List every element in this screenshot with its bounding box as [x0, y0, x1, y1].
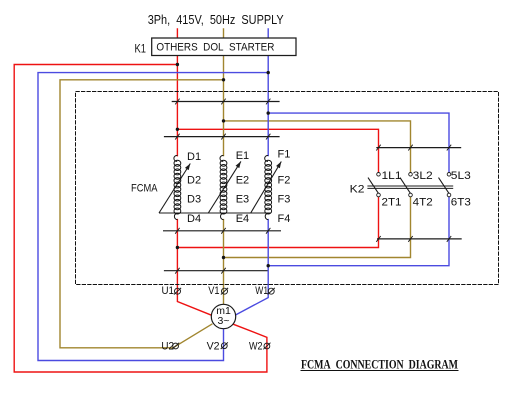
svg-text:U1: U1 — [162, 285, 175, 297]
svg-text:6T3: 6T3 — [451, 197, 471, 209]
svg-text:4T2: 4T2 — [413, 197, 433, 209]
svg-text:OTHERS DOL STARTER: OTHERS DOL STARTER — [156, 42, 274, 54]
svg-text:3L2: 3L2 — [413, 170, 433, 182]
svg-text:FCMA CONNECTION DIAGRAM: FCMA CONNECTION DIAGRAM — [301, 357, 458, 371]
svg-text:F4: F4 — [278, 213, 291, 225]
svg-text:D4: D4 — [187, 213, 201, 225]
svg-text:U2: U2 — [161, 340, 174, 352]
svg-text:E2: E2 — [236, 175, 249, 187]
svg-text:F3: F3 — [278, 194, 291, 206]
svg-text:3~: 3~ — [218, 315, 230, 327]
svg-text:D3: D3 — [187, 194, 201, 206]
svg-text:V2: V2 — [207, 340, 220, 352]
svg-text:E1: E1 — [236, 150, 249, 162]
svg-text:K2: K2 — [350, 183, 365, 195]
svg-text:V1: V1 — [208, 285, 219, 297]
svg-text:F2: F2 — [278, 175, 291, 187]
svg-text:2T1: 2T1 — [382, 197, 402, 209]
svg-text:W1: W1 — [255, 285, 268, 297]
svg-text:K1: K1 — [135, 42, 147, 56]
svg-text:3Ph, 415V, 50Hz SUPPLY: 3Ph, 415V, 50Hz SUPPLY — [148, 12, 284, 27]
svg-text:1L1: 1L1 — [382, 170, 402, 182]
svg-text:D2: D2 — [187, 175, 201, 187]
svg-text:W2: W2 — [249, 341, 263, 353]
svg-text:FCMA: FCMA — [131, 183, 158, 195]
svg-text:E4: E4 — [236, 213, 249, 225]
svg-text:5L3: 5L3 — [451, 170, 471, 182]
svg-text:D1: D1 — [187, 151, 201, 163]
svg-text:E3: E3 — [236, 194, 249, 206]
svg-text:F1: F1 — [278, 149, 291, 161]
